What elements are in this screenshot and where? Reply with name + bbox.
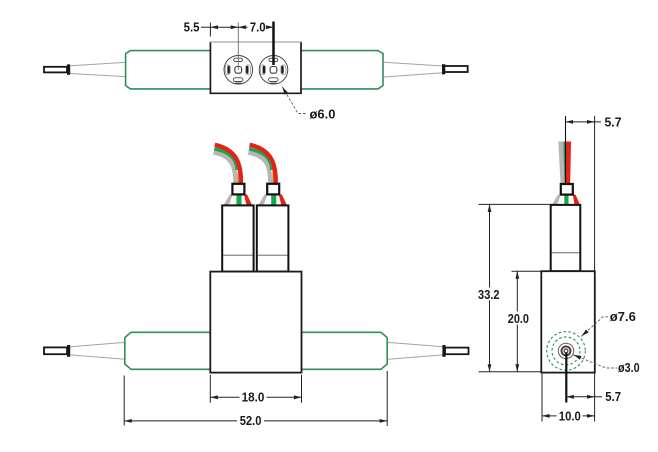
center hole [564,349,568,353]
body (side view) [541,271,595,372]
left tower [222,205,253,271]
thick line into right circle [272,22,275,66]
leader o6.0 [282,87,307,114]
fan green (side) [564,195,568,206]
svg-text:5.7: 5.7 [605,390,621,404]
neck (side) [561,184,573,195]
wire bundle red (side) [566,142,571,185]
bottom extension line (33.2/20.0) [479,371,542,373]
svg-text:33.2: 33.2 [478,288,500,302]
extension line at block left edge [209,23,211,37]
svg-text:ø6.0: ø6.0 [310,107,336,121]
svg-text:52.0: 52.0 [240,414,262,428]
right wire bundle green [249,149,272,170]
right fiber taper lines [384,62,443,77]
left ferrule [44,67,67,73]
right wire bundle red [250,145,276,184]
leader o7.6 [581,317,609,337]
20.0 top extension line [512,270,542,272]
right wire bundle orange [272,171,274,185]
right fan green wire [271,194,276,205]
left wire bundle green [214,149,237,170]
left fan gray wire [223,194,232,205]
dim 20.0 [516,271,518,372]
svg-text:18.0: 18.0 [242,391,265,405]
centerline through left circle [237,23,239,70]
right ferrule (front) [445,348,469,355]
svg-text:5.5: 5.5 [184,21,200,35]
green cylinder body (top view) [126,51,383,89]
left wire bundle orange [237,171,239,185]
dimension 5.5 [201,26,274,28]
right connector face circle [259,56,288,85]
thick ring [562,346,571,355]
dim 52.0 extension lines [123,376,125,426]
right fan gray wire [258,194,267,205]
long extension line at right [594,116,596,422]
right ferrule end bar (front) [442,345,445,357]
fan red (side) [573,195,580,206]
center block (front view) [210,272,301,373]
inner green dashed circle [552,337,580,365]
svg-text:10.0: 10.0 [559,410,581,424]
left ferrule end bar (front) [67,345,70,357]
left fiber taper lines [71,62,126,76]
dimension 7.0 [248,22,268,33]
right fiber taper lines (front) [388,342,443,359]
right wire bundle gray [248,153,270,184]
dim 18.0 [210,396,301,398]
left ferrule end bar [67,64,70,74]
left tower inner line [223,254,253,256]
thick centerline down from circle [565,352,567,402]
dim 5.7 top [566,121,602,123]
svg-text:20.0: 20.0 [508,312,529,326]
33.2 top extension line [479,203,552,205]
wire bundle gray (side) [558,142,564,185]
left fan red wire [244,194,252,205]
right neck [267,184,279,195]
right ferrule [444,66,468,72]
left fan green wire [236,194,241,205]
dim 18.0 extension lines [209,375,211,403]
left wire bundle gray [214,153,236,184]
svg-text:ø7.6: ø7.6 [610,310,636,324]
left neck [232,184,244,195]
right tower [257,205,289,271]
extension line over bundle [565,116,567,185]
circle o3 [558,343,573,358]
left fiber taper lines (front) [71,342,125,359]
10.0 left extension line [541,374,543,422]
center block (top view) [210,42,301,93]
right tower inner line [258,254,288,256]
svg-text:5.7: 5.7 [605,115,622,129]
dim 10.0 [542,415,595,417]
leader o3.0 [573,355,617,368]
left wire bundle red [215,145,241,184]
svg-text:ø3.0: ø3.0 [618,361,640,375]
tower (side) [551,205,581,271]
left connector face circle [224,56,253,85]
right ferrule end bar [442,64,445,74]
tower inner line (side) [552,252,580,254]
svg-text:7.0: 7.0 [250,21,266,35]
fan gray (side) [551,195,560,206]
wire bundle green (side) [563,142,566,185]
right fan red wire [279,194,287,205]
green cylinder body (front view) [125,332,387,369]
dim 52.0 [124,420,387,422]
left ferrule (front) [44,347,67,354]
dim 33.2 [489,204,491,371]
dim 5.7 bottom [566,396,602,398]
outer green dashed circle [547,332,586,371]
